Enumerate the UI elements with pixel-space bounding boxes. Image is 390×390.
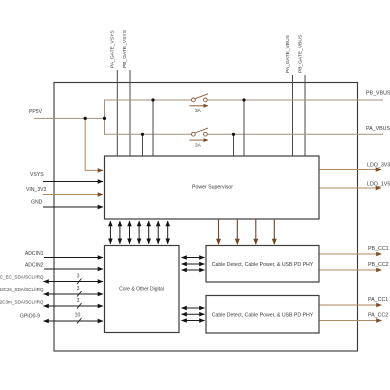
node rail A sense 2 junction [232,133,235,136]
svg-text:Power Supervisor: Power Supervisor [192,185,233,191]
bus width 3 mark I2C3m [77,303,82,309]
wire rail B sense 2 into supervisor [243,100,245,156]
wire core to PHY A link 2 [182,313,205,315]
svg-text:I2C_EC_SDA/SCL/IRQ: I2C_EC_SDA/SCL/IRQ [0,275,44,280]
wire GND [43,206,103,208]
wire I2C3m (bidirectional bus) [44,305,104,307]
svg-text:I2C2s_SDA/SCL/IRQ: I2C2s_SDA/SCL/IRQ [0,287,44,292]
svg-text:3A: 3A [195,108,202,114]
svg-text:PP5V: PP5V [29,109,43,115]
svg-text:GPIO0-9: GPIO0-9 [20,314,40,320]
svg-text:PA_GATE_VSYS: PA_GATE_VSYS [110,30,116,68]
wire supervisor to core link 1 [109,221,111,244]
svg-text:PB_GATE_VBUS: PB_GATE_VBUS [297,34,303,73]
wire rail B sense into supervisor [152,100,154,156]
wire core to PHY A link 1 [182,307,205,309]
wire supervisor to core link 4 [138,221,140,244]
wire PB_CC2 [320,269,382,271]
wire I2C_EC (bidirectional bus) [44,281,104,283]
bus width 3 mark I2C2s [77,291,82,297]
wire PB_GATE_VBUS [304,75,306,156]
wire I2C2s (bidirectional bus) [44,293,104,295]
wire PA_CC1 [320,304,382,306]
svg-text:PB_CC2: PB_CC2 [368,262,389,268]
wire supervisor to core link 6 [157,221,159,244]
svg-text:3: 3 [77,298,80,304]
wire GPIO0-9 (bidirectional bus) [44,320,104,322]
svg-text:VIN_3V3: VIN_3V3 [26,187,47,193]
wire supervisor power to PHY B 3 [255,220,257,245]
svg-text:PA_CC2: PA_CC2 [368,313,388,319]
node rail A sense junction [141,133,144,136]
svg-text:ADCIN2: ADCIN2 [25,263,44,269]
wire core to PHY B link 1 [182,257,205,259]
svg-text:3: 3 [77,286,80,292]
wire PA_GATE_VSYS [116,70,118,156]
wire rail A sense 2 into supervisor [233,134,235,155]
svg-text:3: 3 [77,274,80,280]
chip outline [54,83,358,352]
svg-text:Cable Detect, Cable Power, & U: Cable Detect, Cable Power, & USB PD PHY [212,262,314,268]
block: Cable Detect, Cable Power, & USB PD PHY (port B) [206,246,319,283]
wire ADCIN2 [44,268,103,270]
wire LDO_3V3 [320,169,382,171]
svg-text:Cable Detect, Cable Power, & U: Cable Detect, Cable Power, & USB PD PHY [212,313,314,319]
bus width 3 mark I2C_EC [77,279,82,285]
wire core to PHY B link 2 [182,263,205,265]
svg-text:3A: 3A [195,142,202,148]
wire core to PHY A link 3 [182,320,205,322]
wire VSYS [43,181,103,183]
node PP5V rail junction [103,117,106,120]
svg-text:Core & Other Digital: Core & Other Digital [119,287,164,293]
wire PA_CC2 [320,320,382,322]
wire PB_CC1 [320,253,382,255]
svg-text:ADCIN1: ADCIN1 [25,251,44,257]
wire PP5V branch to supervisor [85,118,103,170]
svg-text:LDO_1V5: LDO_1V5 [367,182,390,188]
svg-text:GND: GND [31,200,43,206]
node rail B sense junction [151,98,154,101]
wire ADCIN1 [44,257,103,259]
svg-text:VSYS: VSYS [30,172,44,178]
wire supervisor to core link 7 [167,221,169,244]
svg-text:PA_VBUS: PA_VBUS [366,126,390,132]
svg-text:PB_VBUS: PB_VBUS [366,91,390,97]
wire supervisor power to PHY B 1 [218,220,220,245]
wire PB_GATE_VSYS [129,70,131,156]
wire 5V rail A (bottom rail to PA_VBUS) [105,133,192,135]
node rail B sense 2 junction [242,98,245,101]
svg-text:LDO_3V3: LDO_3V3 [367,163,390,169]
wire VIN_3V3 [43,194,103,196]
wire LDO_1V5 [320,187,382,189]
wire core to PHY B link 3 [182,269,205,271]
block: Power Supervisor [105,156,320,219]
svg-text:PA_CC1: PA_CC1 [368,297,388,303]
wire 5V rail B (top rail to PB_VBUS) [105,99,192,101]
svg-text:PB_GATE_VSYS: PB_GATE_VSYS [122,29,128,68]
wire PA_GATE_VBUS [292,75,294,156]
wire supervisor to core link 3 [129,221,131,244]
wire supervisor power to PHY B 2 [236,220,238,245]
wire supervisor to core link 5 [148,221,150,244]
wire rail A sense into supervisor [142,134,144,155]
wire supervisor to core link 2 [119,221,121,244]
node PP5V junction [84,117,87,120]
svg-text:PA_GATE_VBUS: PA_GATE_VBUS [285,34,291,73]
wire rail connector [104,100,106,135]
wire supervisor power to PHY B 4 [273,220,275,245]
switch S2 3A (port A power path) [190,128,209,148]
block: Core & Other Digital [105,246,180,333]
svg-text:10: 10 [75,313,81,319]
switch S1 3A (port B power path) [190,94,209,114]
wire PP5V [34,117,105,119]
svg-text:PB_CC1: PB_CC1 [368,246,389,252]
block: Cable Detect, Cable Power, & USB PD PHY (port A) [206,296,319,334]
svg-text:I2C3m_SDA/SCL/IRQ: I2C3m_SDA/SCL/IRQ [0,300,44,305]
bus width 10 mark GPIO [77,318,82,324]
